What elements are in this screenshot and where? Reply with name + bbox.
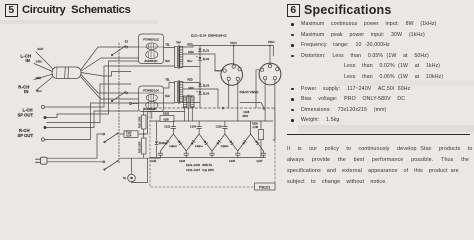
transformer PT101 [183,95,194,109]
potentiometer box VR2 (R) [139,86,164,112]
svg-text:D104: D104 [197,146,203,148]
capacitor C107 [257,151,266,163]
diode D105 [216,140,227,148]
svg-text:810K: 810K [164,118,170,121]
board outline top edge [150,107,275,109]
svg-text:BLU: BLU [187,60,192,63]
wire J1 pin5 drop [237,81,239,122]
wire HV top rail [200,46,273,57]
wire J2 top pin [269,46,271,65]
wire selector to volume [128,46,139,48]
resistor R105 [160,112,174,121]
svg-text:C101: C101 [151,160,158,163]
capacitor ladder [210,151,215,158]
diode ZL03 [198,83,209,87]
terminal board tap A [222,107,224,109]
svg-text:GRN: GRN [188,87,194,90]
svg-text:+: + [196,55,198,58]
AC plug [36,157,48,164]
wire T2 secondary bottom [183,102,200,104]
diode ladder [242,140,246,144]
svg-text:C108: C108 [244,111,250,114]
switch contact S1-1 [111,41,128,56]
diode ZL02 [198,57,209,61]
svg-text:C103: C103 [179,160,186,163]
terminal L-CH SP OUT - [44,116,47,119]
terminal pot2 feed [129,102,131,104]
svg-text:RED: RED [187,44,192,47]
svg-text:NL: NL [123,176,127,180]
wire J2 left pin [256,70,260,108]
wire T1 secondary bottom [183,66,200,68]
svg-text:R105: R105 [163,112,170,115]
wire J2 pin4 drop [264,80,266,121]
svg-text:D101~D106 SR51TG: D101~D106 SR51TG [186,163,212,167]
svg-text:C101~C107 0.1μ 250V: C101~C107 0.1μ 250V [186,168,214,172]
neon lamp NL [123,158,135,182]
svg-text:PTX4563-1G2: PTX4563-1G2 [143,38,159,41]
wire R-ch to volume box [81,77,139,99]
potentiometer box VR1 (L) [139,34,164,64]
label PB101 [255,183,276,190]
svg-text:C104: C104 [190,125,197,128]
diode ZL04 [198,91,209,95]
wire T1 secondary top [183,46,200,48]
wire switched AC to board [120,157,161,159]
section 5 heading [5,4,18,17]
wire T2 secondary mid [183,89,218,108]
switch contact S1-3 [103,133,119,143]
scan artifact bands [0,20,158,24]
terminal board tap B [263,107,265,109]
diode D103 [190,140,201,148]
diode ZD101 [155,121,166,158]
wire AC line A [47,134,103,158]
resistor R102 [139,134,146,158]
node L-CH SP OUT label [18,107,34,117]
wire J2 pin5 drop [273,80,275,140]
svg-text:2.2M: 2.2M [253,126,258,129]
svg-text:YEL: YEL [165,79,170,82]
resistor R101 [139,108,146,134]
svg-text:C105: C105 [229,160,236,163]
svg-text:PRO: PRO [268,40,275,44]
wire volume R ground [151,112,153,119]
wire R-CH SP OUT return B [44,103,174,140]
wire bias feed [240,103,264,108]
svg-text:IN: IN [24,89,28,94]
svg-text:RED: RED [187,79,192,82]
svg-text:C102: C102 [164,125,171,128]
svg-text:ZL01~ZL04 ENB49196-02: ZL01~ZL04 ENB49196-02 [191,34,227,38]
rule [287,134,470,135]
diode D106 [223,140,233,148]
svg-text:ZL02: ZL02 [203,57,210,61]
transformer T1 [165,42,194,69]
wire lamp return [132,158,148,182]
svg-text:ZL04: ZL04 [203,91,210,95]
svg-text:E3: E3 [125,41,129,44]
svg-text:R101 100K: R101 100K [139,116,141,128]
junction fuse node [143,133,145,135]
switch gang dashed link [118,43,120,163]
svg-text:WHT: WHT [38,47,44,51]
wire T1 secondary mid [183,54,221,71]
node R-CH SP OUT label [18,128,34,138]
wire PT101 primary feed [147,112,184,135]
diode ZL01 [198,48,209,52]
diode D101 [165,140,176,148]
wire L-CH SP OUT return B [47,61,139,118]
wire J1 left pin [215,70,223,72]
svg-text:BSD30KΩH: BSD30KΩH [145,60,158,63]
wire bundle L aux [81,72,131,77]
capacitor C104 [190,121,202,134]
svg-text:PRO: PRO [230,41,237,45]
wire PT101 secondary drops [184,108,186,122]
wire L-CH SP OUT return A [44,66,174,107]
wire rectifier bus [199,46,201,109]
svg-text:RED: RED [36,76,42,80]
wire bundle R aux [47,84,132,123]
svg-text:R102 100K: R102 100K [139,141,141,153]
svg-text:BLK: BLK [165,60,170,63]
diode D104 [197,140,207,148]
capacitor C102 [164,121,176,134]
junction top rail S2 [269,45,271,47]
capacitor C105 [229,151,240,163]
svg-text:SP OUT: SP OUT [18,133,34,138]
input cable sleeve [52,67,81,79]
node L-CH IN label [21,54,32,64]
wire AC line B [47,161,103,163]
svg-text:SP OUT: SP OUT [18,113,34,118]
capacitor C103 [179,151,189,163]
svg-text:ZD101: ZD101 [159,143,167,145]
resistor R106 [252,121,264,158]
wire ladder zigzag [161,134,264,151]
wire through volume L [139,46,164,48]
wire volume to T1 [164,47,175,49]
wire BLU input lead [36,77,53,93]
terminal R-CH SP OUT + [44,126,47,129]
wire ladder bottom rail [150,157,266,159]
wire L-ch hot to selector [81,47,126,70]
capacitor C108 [243,111,250,118]
svg-text:+: + [196,90,198,93]
svg-text:ZL01: ZL01 [203,48,210,52]
svg-text:C107: C107 [257,160,264,163]
wire WHT input lead [36,47,53,69]
terminal R-CH SP OUT - [41,138,44,141]
wire L-ch to volume box [81,58,139,71]
policy paragraph [287,146,472,152]
board outline PB101 [150,108,275,187]
wire through volume R [139,92,164,94]
node R-CH IN label [18,84,29,94]
svg-text:PTX4563-1G4: PTX4563-1G4 [143,90,159,93]
wire J1 top pin [233,46,235,65]
junction top rail S1 [233,45,235,47]
label ladder parts [186,163,214,172]
connector J2 (PRO) [259,63,281,85]
connector J1 (PRO) [221,64,243,86]
svg-text:BLU: BLU [37,89,42,93]
svg-text:D106: D106 [223,146,229,148]
wire pot2 feed stub [132,103,139,105]
svg-text:0.5A: 0.5A [126,135,131,138]
wire R-CH SP OUT return A [47,111,139,128]
wire volume to T2 [164,83,175,89]
svg-text:640V: 640V [243,115,249,118]
section 6 heading [287,4,300,17]
wire ladder top rail [150,120,160,122]
svg-text:ZL03: ZL03 [203,83,210,87]
fuse F101 [120,131,148,138]
svg-text:GRN: GRN [36,60,42,64]
wire T2 secondary top [183,82,200,84]
svg-text:IN: IN [26,58,30,63]
wire J1 pin4 drop [228,81,230,109]
capacitor C101 [151,151,163,163]
transformer T2 [165,79,194,104]
svg-text:D102: D102 [172,146,178,148]
terminal L-CH SP OUT + [41,105,44,108]
svg-text:BLK: BLK [165,95,170,98]
diode ladder [255,140,259,144]
svg-text:TAP: TAP [176,42,181,45]
svg-text:YEL: YEL [165,44,170,47]
diode D102 [172,140,182,148]
wire peak4 stub [250,121,252,134]
specifications bullets [291,23,294,26]
wire GRN input lead [34,60,53,72]
svg-text:PB101: PB101 [259,185,270,189]
wire RED input lead [34,74,53,80]
capacitor C106 [216,121,228,134]
svg-text:(REAR VIEW): (REAR VIEW) [240,90,259,94]
switch contact S1-2 [111,92,138,102]
wire R-ch hot to selector [81,75,126,94]
svg-text:C106: C106 [216,125,223,128]
switch contact S1-4 [103,160,119,170]
